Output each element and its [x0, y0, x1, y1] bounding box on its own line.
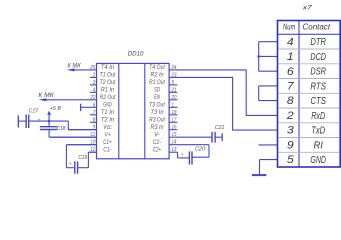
- svg-text:2: 2: [286, 110, 294, 122]
- svg-text:Contact: Contact: [303, 22, 331, 32]
- svg-text:V-: V-: [154, 132, 161, 139]
- svg-text:R1 In: R1 In: [101, 87, 115, 94]
- svg-text:GND: GND: [310, 155, 326, 166]
- svg-text:К МК: К МК: [38, 92, 54, 99]
- svg-text:V+: V+: [105, 132, 111, 139]
- svg-text:SD: SD: [154, 87, 160, 94]
- svg-text:x7: x7: [302, 4, 313, 11]
- svg-text:16: 16: [172, 125, 177, 131]
- svg-text:R2 In: R2 In: [150, 72, 164, 79]
- svg-text:4: 4: [93, 87, 96, 93]
- svg-text:DCD: DCD: [310, 52, 326, 63]
- svg-text:R1 Out: R1 Out: [149, 79, 166, 86]
- svg-text:GND: GND: [103, 102, 112, 109]
- svg-text:T4 In: T4 In: [101, 64, 115, 71]
- svg-text:T2 In: T2 In: [101, 117, 115, 124]
- svg-text:+5 В: +5 В: [50, 106, 61, 112]
- svg-text:CTS: CTS: [310, 96, 326, 107]
- svg-text:С21: С21: [215, 125, 225, 131]
- svg-text:3: 3: [93, 80, 96, 86]
- svg-text:5: 5: [172, 80, 175, 86]
- svg-text:4: 4: [287, 36, 294, 48]
- svg-text:C2-: C2-: [153, 139, 162, 146]
- svg-text:TxD: TxD: [311, 126, 325, 137]
- svg-text:2: 2: [92, 72, 95, 78]
- svg-text:R3 Out: R3 Out: [149, 117, 166, 124]
- svg-text:6: 6: [93, 102, 96, 108]
- svg-text:8: 8: [287, 95, 295, 107]
- svg-text:T3 Out: T3 Out: [149, 102, 166, 109]
- svg-text:C1+: C1+: [103, 139, 112, 146]
- svg-text:DD10: DD10: [128, 51, 144, 58]
- svg-text:6: 6: [287, 66, 295, 78]
- svg-text:5: 5: [287, 154, 295, 166]
- svg-text:R2 Out: R2 Out: [100, 94, 117, 101]
- svg-text:DTR: DTR: [310, 37, 326, 48]
- svg-text:+: +: [69, 162, 72, 167]
- svg-text:RI: RI: [314, 140, 324, 151]
- svg-text:+: +: [38, 118, 41, 123]
- svg-text:1: 1: [172, 102, 175, 108]
- svg-text:T3 In: T3 In: [150, 109, 164, 116]
- svg-text:Num: Num: [283, 22, 295, 32]
- svg-text:Vcc: Vcc: [103, 124, 112, 131]
- svg-text:C1-: C1-: [103, 147, 112, 154]
- svg-text:1: 1: [287, 51, 294, 63]
- svg-text:8: 8: [93, 117, 96, 123]
- svg-text:T1 Out: T1 Out: [100, 72, 117, 79]
- svg-text:3: 3: [287, 125, 295, 137]
- svg-text:RxD: RxD: [311, 111, 325, 122]
- svg-text:С20: С20: [195, 147, 205, 153]
- svg-text:T4 Out: T4 Out: [149, 64, 166, 71]
- svg-text:+: +: [181, 153, 184, 158]
- svg-text:T1 In: T1 In: [101, 109, 115, 116]
- svg-text:T2 Out: T2 Out: [100, 79, 117, 86]
- svg-text:21: 21: [171, 87, 177, 93]
- svg-text:RTS: RTS: [310, 81, 326, 92]
- svg-text:DSR: DSR: [310, 67, 326, 78]
- svg-text:EN: EN: [154, 94, 160, 101]
- svg-text:C2+: C2+: [153, 147, 162, 154]
- svg-text:С19: С19: [78, 155, 87, 161]
- svg-text:18: 18: [172, 110, 177, 116]
- svg-text:9: 9: [287, 140, 294, 152]
- svg-text:С17: С17: [29, 108, 39, 114]
- svg-text:7: 7: [287, 81, 295, 93]
- svg-text:К МК: К МК: [67, 63, 81, 70]
- svg-text:R3 In: R3 In: [150, 124, 164, 131]
- svg-text:20: 20: [171, 95, 177, 101]
- svg-text:С18: С18: [57, 126, 66, 132]
